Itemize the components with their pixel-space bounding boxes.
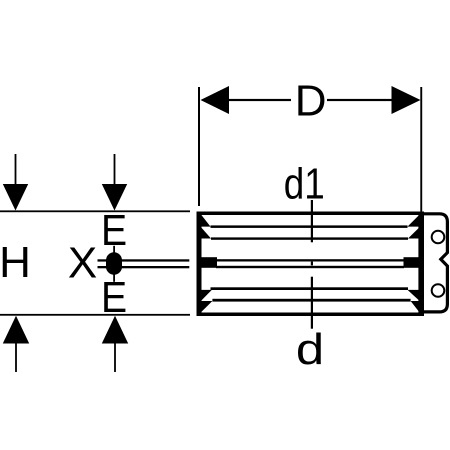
dimension D shaft right bbox=[327, 99, 392, 101]
rib line 3 bbox=[211, 287, 409, 290]
right wedge 2 bbox=[408, 228, 419, 239]
slot left block bbox=[202, 257, 218, 268]
dimension H up arrow 1 head bbox=[3, 316, 29, 344]
right wedge 4 bbox=[411, 301, 419, 312]
left wedge 4 bbox=[202, 301, 213, 312]
left wedge 2 bbox=[202, 228, 212, 239]
axis line between point X and E bottom bbox=[113, 274, 115, 282]
body bottom edge bbox=[197, 313, 423, 317]
centerline lower segment bbox=[311, 277, 313, 329]
body top edge bbox=[197, 212, 423, 216]
dimension H up arrow 2 shaft bbox=[114, 344, 116, 373]
dimension H down arrow 1 shaft bbox=[15, 154, 17, 185]
rib line 4 bbox=[212, 299, 410, 302]
right wedge 1 bbox=[408, 215, 420, 227]
dimension D extension line right bbox=[420, 87, 422, 212]
svg-text:d: d bbox=[296, 325, 324, 374]
dimension H down arrow 1 head bbox=[3, 184, 28, 211]
right wedge 3 bbox=[408, 290, 420, 301]
measuring point X dot bbox=[106, 252, 122, 274]
svg-text:d1: d1 bbox=[284, 159, 325, 208]
centerline middle dash bbox=[311, 262, 313, 266]
dimension D shaft left bbox=[229, 99, 291, 101]
fastening tab outline with V-notch bbox=[420, 214, 447, 312]
slot right block bbox=[404, 257, 420, 268]
axis line between E top and point X bbox=[113, 246, 115, 253]
tab hole bottom bbox=[432, 284, 445, 297]
dimension D arrowhead right bbox=[392, 86, 421, 114]
centerline upper segment bbox=[311, 200, 313, 242]
svg-text:X: X bbox=[68, 238, 97, 287]
dimension D extension line left bbox=[198, 87, 200, 206]
body left end bar bbox=[197, 212, 202, 317]
slot top line bbox=[216, 259, 404, 261]
slot bottom line bbox=[216, 266, 404, 268]
tab hole top bbox=[432, 231, 445, 244]
left wedge 3 bbox=[202, 290, 212, 301]
dimension H bottom line bbox=[0, 314, 190, 316]
rib line 2 bbox=[211, 237, 408, 239]
body right end bar bbox=[419, 212, 424, 317]
svg-text:D: D bbox=[295, 77, 327, 126]
left wedge 1 bbox=[202, 215, 211, 227]
rib line 1 bbox=[211, 225, 408, 228]
dimension H down arrow 2 head bbox=[102, 184, 127, 211]
dimension D arrowhead left bbox=[201, 86, 230, 114]
dimension H down arrow 2 shaft bbox=[114, 154, 116, 185]
dimension H top line bbox=[0, 210, 190, 212]
double reference line lower bbox=[98, 266, 190, 268]
double reference line upper bbox=[98, 259, 190, 261]
dimension H up arrow 2 head bbox=[102, 316, 128, 344]
svg-text:H: H bbox=[0, 238, 31, 287]
dimension H up arrow 1 shaft bbox=[15, 344, 17, 373]
